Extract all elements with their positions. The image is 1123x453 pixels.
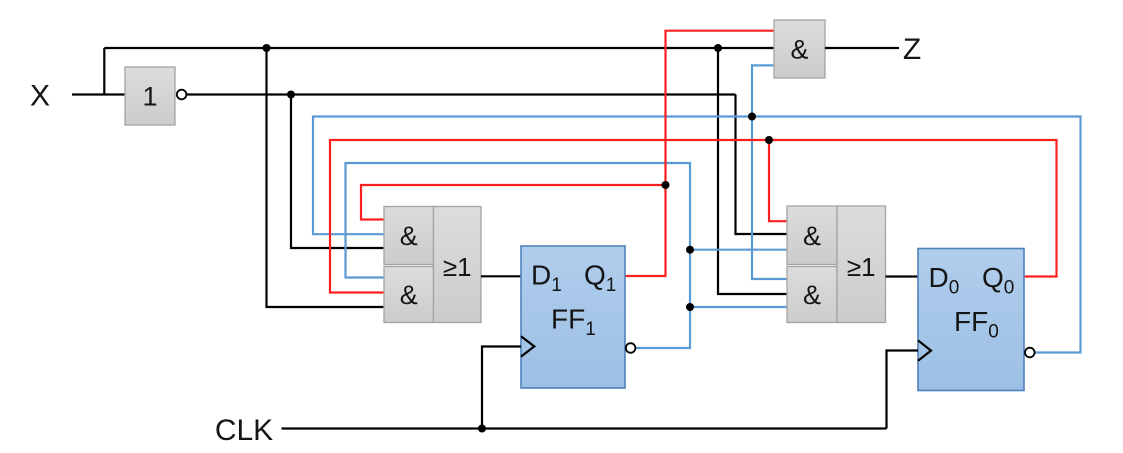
- svg-text:&: &: [803, 221, 821, 251]
- wire NOT-X drop to right AND: [736, 95, 788, 235]
- svg-text:&: &: [400, 221, 418, 251]
- wire OR G3 to FF1 D: [481, 275, 521, 277]
- OR gate G6 right: [837, 206, 886, 323]
- svg-text:≥1: ≥1: [847, 252, 876, 282]
- svg-text:≥1: ≥1: [443, 252, 472, 282]
- wire FF0 Q branch to right AND: [769, 140, 787, 221]
- flip-flop FF1: [521, 246, 625, 388]
- node FF0 Q junction: [765, 136, 773, 144]
- OR gate G3 left: [434, 207, 482, 323]
- wire Z output: [825, 47, 899, 49]
- node FF1 notQ junction lower: [686, 303, 694, 311]
- wire FF1 notQ branch to right top AND: [690, 249, 787, 251]
- wire FF0 notQ blue bus: [313, 117, 1081, 353]
- wire FF1 notQ branch to right bottom AND: [690, 306, 787, 308]
- FF0 notQ bubble: [1025, 348, 1035, 358]
- node FF0 notQ junction: [748, 113, 756, 121]
- svg-text:&: &: [790, 35, 808, 65]
- svg-text:Z: Z: [903, 33, 921, 66]
- node NOT-X junction: [287, 91, 295, 99]
- wire FF1 Q red riser to output AND: [625, 31, 774, 276]
- wire FF0 notQ branch to output AND and right AND: [752, 65, 787, 279]
- wire NOT-X drop to left AND: [291, 95, 384, 249]
- svg-text:CLK: CLK: [215, 414, 273, 447]
- AND gate G2 bottom-left: [384, 267, 434, 323]
- svg-text:&: &: [803, 280, 821, 310]
- wire CLK riser to FF0: [887, 351, 919, 429]
- node CLK junction: [478, 425, 486, 433]
- node FF1 notQ junction upper: [686, 246, 694, 254]
- wire X drop to left AND: [267, 48, 385, 307]
- wire X branch vertical: [103, 48, 105, 95]
- inverter output bubble: [177, 90, 187, 100]
- node X right junction: [714, 44, 722, 52]
- FF0 clock chevron: [918, 340, 931, 360]
- wire X top bus: [104, 47, 774, 49]
- output AND gate G7: [774, 20, 825, 78]
- node X left junction: [263, 44, 271, 52]
- wire FF1 notQ blue bus: [346, 163, 691, 348]
- flip-flop FF0: [918, 249, 1024, 391]
- AND gate G4 top-right: [787, 206, 837, 265]
- wire CLK riser to FF1: [482, 347, 521, 429]
- node FF1 Q junction: [662, 181, 670, 189]
- wire NOT-X bus: [187, 93, 736, 95]
- wire OR G6 to FF0 D: [886, 275, 919, 277]
- AND gate G1 top-left: [384, 207, 434, 265]
- wire FF0 Q red bus: [330, 140, 1057, 293]
- AND gate G5 bottom-right: [787, 267, 837, 323]
- FF1 notQ bubble: [626, 343, 636, 353]
- inverter U1: [125, 67, 175, 125]
- FF1 clock chevron: [521, 336, 534, 356]
- svg-text:&: &: [400, 280, 418, 310]
- wire X drop to right AND: [718, 48, 787, 294]
- svg-text:1: 1: [142, 82, 157, 112]
- wire CLK line: [282, 427, 887, 429]
- wire X input: [72, 93, 125, 95]
- wire FF1 Q branch to left AND: [361, 185, 666, 220]
- svg-text:X: X: [30, 80, 50, 113]
